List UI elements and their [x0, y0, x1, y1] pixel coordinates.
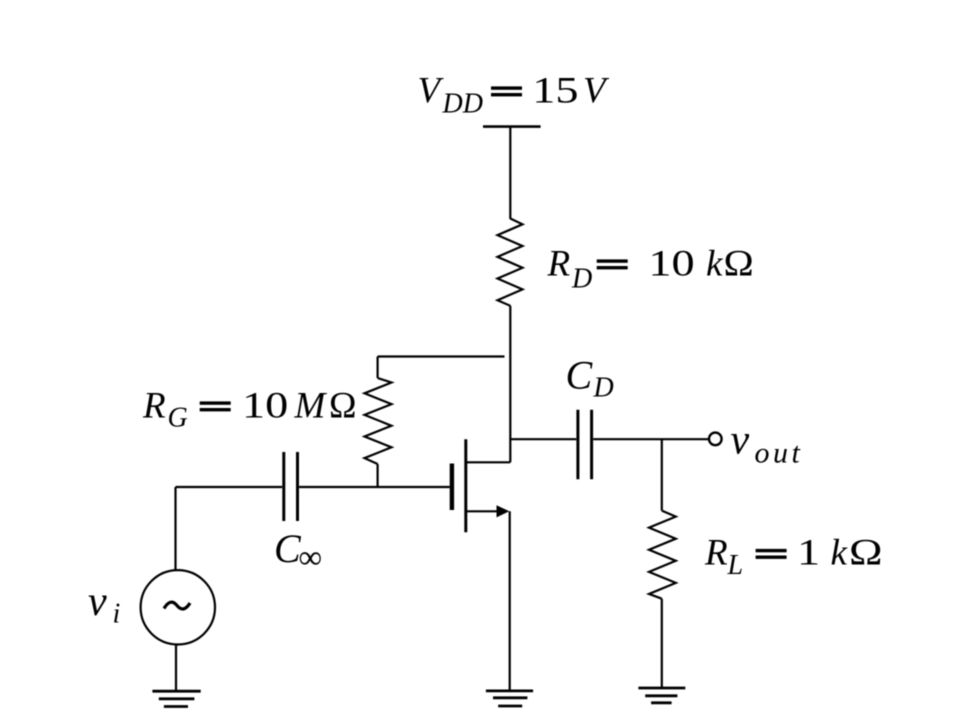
wire input vertical to source vi: [174, 487, 176, 570]
ground (source): [486, 690, 533, 693]
wire input node to C-inf: [176, 486, 283, 488]
wire C-inf to gate: [299, 486, 450, 488]
svg-text:15: 15: [532, 71, 578, 112]
source vi: [141, 570, 215, 644]
resistor RG: [377, 357, 379, 379]
svg-text:10: 10: [242, 386, 288, 427]
svg-text:R: R: [142, 386, 166, 427]
svg-text:out: out: [755, 437, 804, 470]
wire source to ground: [509, 511, 511, 689]
svg-text:V: V: [583, 71, 610, 112]
svg-text:M: M: [294, 386, 328, 427]
svg-text:C: C: [566, 353, 594, 398]
resistor RD: [498, 219, 523, 306]
wire VDD bar to RD: [509, 127, 511, 219]
wire drain to CD: [510, 438, 576, 440]
wire RD to drain node: [509, 306, 511, 463]
svg-text:Ω: Ω: [329, 386, 357, 427]
svg-text:D: D: [593, 373, 614, 404]
label VDD = 15V: [418, 71, 611, 120]
wire drain feedback to RG: [378, 355, 505, 357]
svg-text:Ω: Ω: [724, 243, 754, 284]
label C-inf: [274, 526, 322, 576]
svg-text:G: G: [168, 403, 188, 434]
svg-text:D: D: [571, 264, 592, 295]
svg-text:v: v: [731, 418, 750, 464]
svg-text:v: v: [88, 579, 107, 625]
ground (RL): [638, 687, 685, 690]
resistor RL: [649, 511, 676, 599]
wire vi to ground: [175, 645, 177, 691]
label CD: [566, 353, 614, 404]
label RD = 10 kOhm: [547, 243, 754, 294]
ground (vi): [152, 690, 200, 693]
label vout: [731, 418, 804, 470]
label RG = 10 MOhm: [142, 386, 357, 434]
terminal vout: [709, 433, 722, 446]
capacitor CD: [576, 410, 579, 480]
svg-text:10: 10: [648, 244, 694, 285]
label RL = 1 kOhm: [704, 531, 883, 581]
svg-text:k: k: [706, 244, 723, 285]
svg-text:Ω: Ω: [849, 531, 883, 572]
transistor M1: [452, 439, 510, 532]
svg-text:R: R: [547, 244, 571, 285]
capacitor C-inf: [282, 452, 285, 521]
svg-text:∞: ∞: [299, 540, 323, 576]
power rail VDD: [483, 125, 541, 128]
svg-text:V: V: [418, 71, 445, 112]
svg-text:R: R: [704, 533, 728, 574]
wire RL to ground: [661, 599, 663, 689]
label vi: [88, 579, 120, 630]
svg-text:k: k: [831, 533, 848, 574]
wire CD to vout: [593, 438, 709, 440]
svg-text:1: 1: [797, 533, 820, 574]
svg-text:L: L: [727, 550, 744, 581]
svg-text:DD: DD: [442, 89, 483, 120]
wire output node to RL: [661, 439, 663, 510]
svg-text:i: i: [113, 599, 121, 630]
